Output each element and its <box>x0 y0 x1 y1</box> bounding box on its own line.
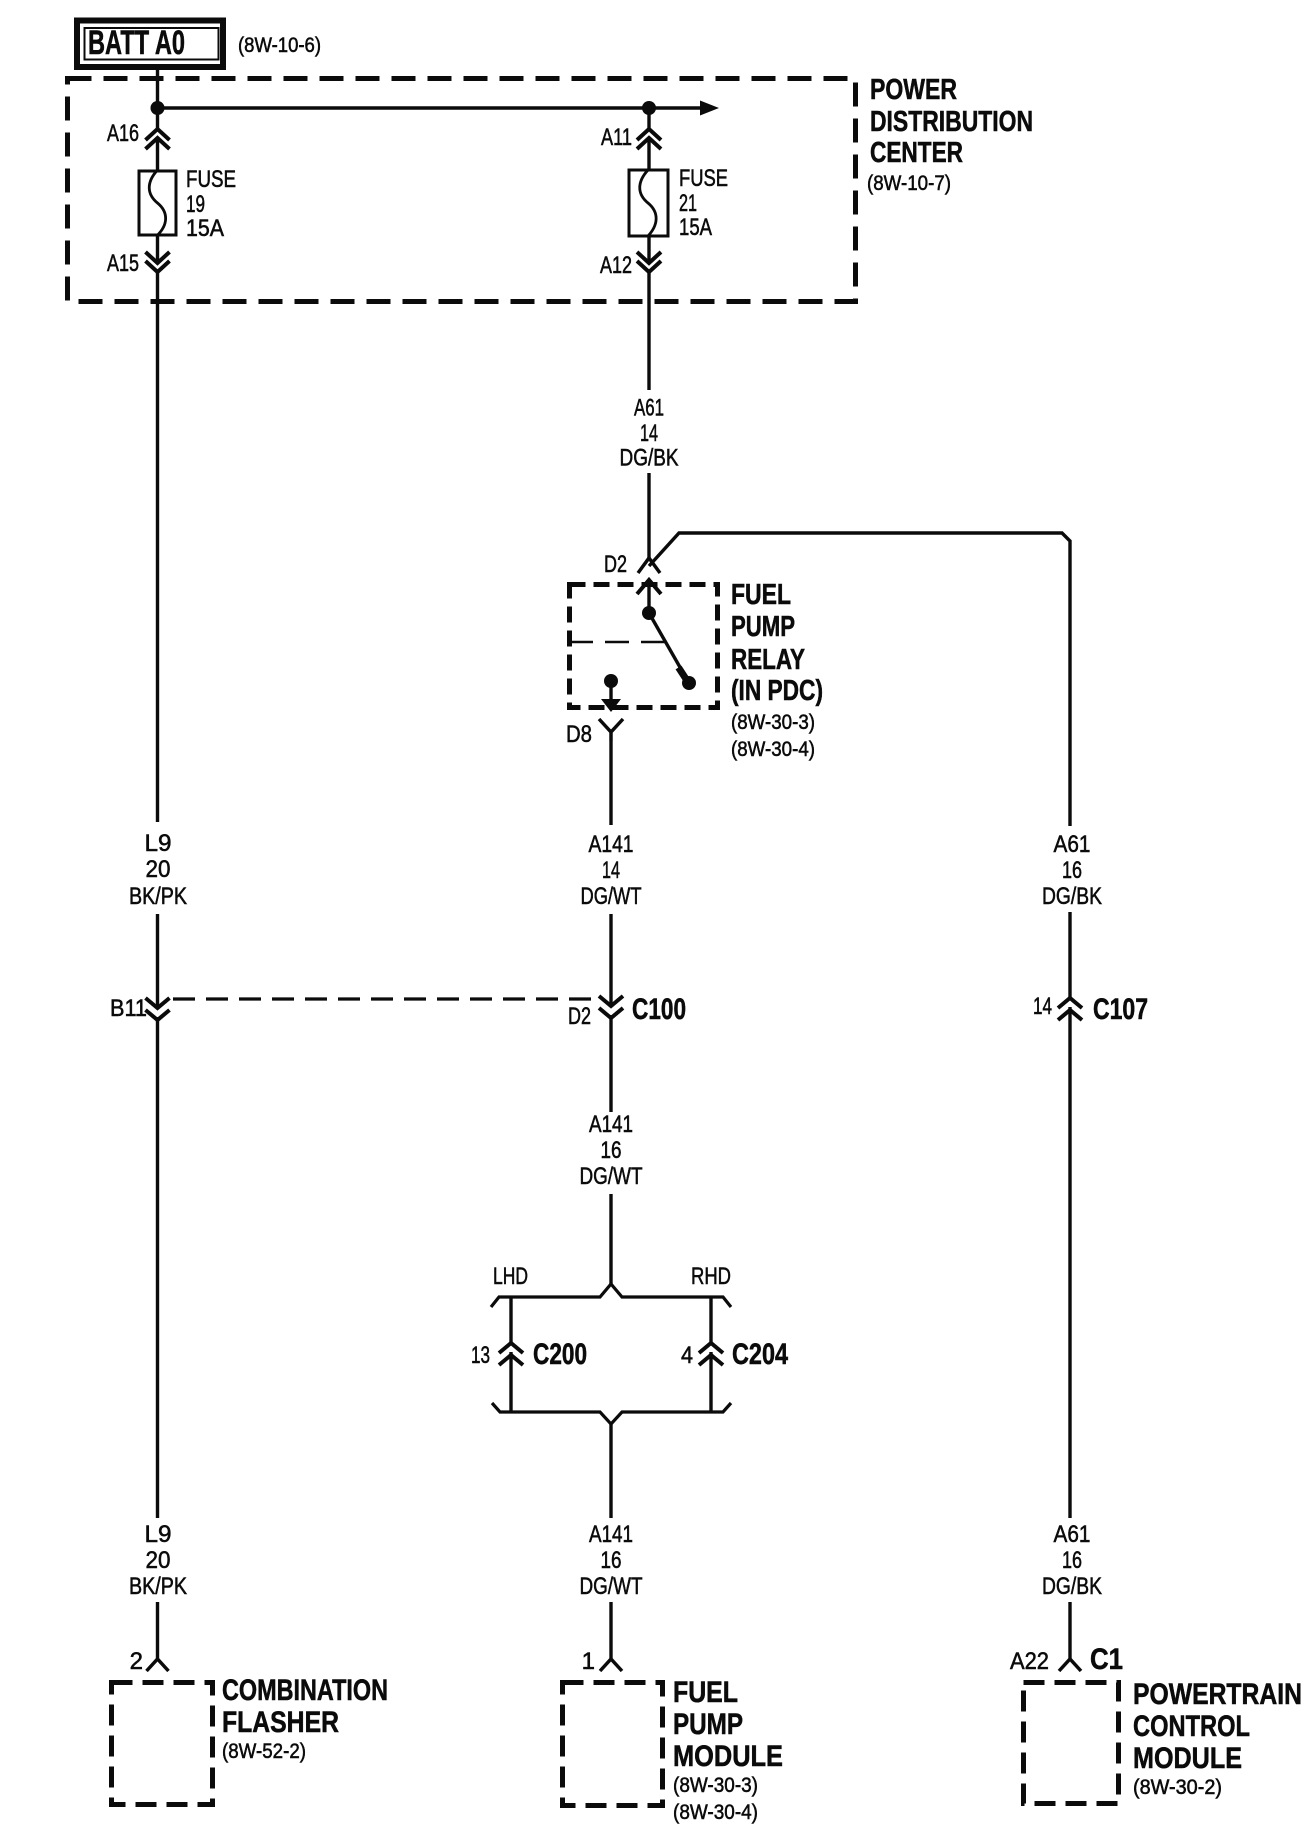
svg-text:(8W-10-6): (8W-10-6) <box>238 34 321 57</box>
svg-text:DG/BK: DG/BK <box>1042 883 1102 910</box>
svg-text:A61: A61 <box>1054 1521 1091 1548</box>
svg-text:20: 20 <box>146 1547 171 1574</box>
svg-text:COMBINATION: COMBINATION <box>222 1674 388 1707</box>
svg-text:C200: C200 <box>533 1338 587 1371</box>
svg-text:FUEL: FUEL <box>731 579 791 611</box>
svg-text:20: 20 <box>146 856 171 883</box>
svg-text:DG/WT: DG/WT <box>581 883 642 910</box>
svg-text:DG/BK: DG/BK <box>1042 1573 1102 1600</box>
svg-text:15A: 15A <box>186 215 224 242</box>
svg-text:D2: D2 <box>604 551 627 578</box>
svg-text:D2: D2 <box>568 1003 591 1030</box>
svg-text:BK/PK: BK/PK <box>129 1573 187 1600</box>
svg-text:PUMP: PUMP <box>731 611 795 643</box>
svg-text:CONTROL: CONTROL <box>1133 1710 1250 1743</box>
svg-text:A61: A61 <box>1054 831 1091 858</box>
svg-text:(8W-52-2): (8W-52-2) <box>222 1740 306 1763</box>
svg-text:15A: 15A <box>679 214 712 241</box>
svg-text:FUSE: FUSE <box>186 166 236 193</box>
svg-text:A141: A141 <box>589 1111 633 1138</box>
svg-text:FUEL: FUEL <box>673 1676 738 1709</box>
svg-text:DISTRIBUTION: DISTRIBUTION <box>870 106 1033 138</box>
svg-text:CENTER: CENTER <box>870 137 963 169</box>
svg-text:A61: A61 <box>634 395 664 422</box>
svg-text:L9: L9 <box>145 830 172 857</box>
svg-text:DG/BK: DG/BK <box>620 445 679 472</box>
svg-text:L9: L9 <box>145 1521 172 1548</box>
svg-text:14: 14 <box>1033 993 1052 1020</box>
svg-text:RELAY: RELAY <box>731 644 805 676</box>
svg-text:A15: A15 <box>107 250 139 277</box>
svg-text:16: 16 <box>1062 1547 1082 1574</box>
svg-text:A22: A22 <box>1010 1648 1049 1675</box>
svg-text:4: 4 <box>681 1342 693 1369</box>
svg-text:C107: C107 <box>1093 993 1148 1026</box>
svg-text:13: 13 <box>471 1342 490 1369</box>
svg-text:(8W-30-4): (8W-30-4) <box>731 738 815 761</box>
svg-text:C204: C204 <box>732 1338 788 1371</box>
svg-text:FUSE: FUSE <box>679 165 728 192</box>
svg-text:C1: C1 <box>1090 1643 1123 1676</box>
svg-text:RHD: RHD <box>691 1263 731 1290</box>
svg-text:16: 16 <box>601 1137 622 1164</box>
svg-text:B11: B11 <box>110 995 147 1022</box>
svg-text:A16: A16 <box>107 120 139 147</box>
svg-text:19: 19 <box>186 191 205 218</box>
svg-text:(8W-10-7): (8W-10-7) <box>867 172 951 195</box>
svg-text:14: 14 <box>602 857 620 884</box>
svg-text:LHD: LHD <box>493 1263 528 1290</box>
svg-text:PUMP: PUMP <box>673 1708 743 1741</box>
svg-text:C100: C100 <box>632 993 686 1026</box>
svg-text:A11: A11 <box>601 124 632 151</box>
svg-text:1: 1 <box>582 1648 595 1675</box>
svg-text:BK/PK: BK/PK <box>129 883 187 910</box>
svg-text:(8W-30-3): (8W-30-3) <box>731 711 815 734</box>
svg-text:FLASHER: FLASHER <box>222 1706 339 1739</box>
svg-text:POWERTRAIN: POWERTRAIN <box>1133 1678 1302 1711</box>
svg-text:(IN PDC): (IN PDC) <box>731 675 823 707</box>
svg-text:MODULE: MODULE <box>673 1740 783 1773</box>
svg-text:POWER: POWER <box>870 74 957 106</box>
svg-text:BATT A0: BATT A0 <box>88 24 185 62</box>
svg-text:21: 21 <box>679 190 697 217</box>
svg-text:A141: A141 <box>589 1521 633 1548</box>
svg-text:2: 2 <box>130 1648 143 1675</box>
svg-text:(8W-30-2): (8W-30-2) <box>1133 1776 1222 1799</box>
svg-text:(8W-30-4): (8W-30-4) <box>673 1801 758 1824</box>
svg-text:14: 14 <box>640 420 658 447</box>
svg-text:A141: A141 <box>589 831 634 858</box>
svg-text:A12: A12 <box>600 252 632 279</box>
svg-text:16: 16 <box>601 1547 622 1574</box>
svg-text:DG/WT: DG/WT <box>580 1163 643 1190</box>
svg-text:D8: D8 <box>566 721 592 748</box>
svg-text:16: 16 <box>1062 857 1082 884</box>
svg-text:MODULE: MODULE <box>1133 1742 1242 1775</box>
svg-text:DG/WT: DG/WT <box>580 1573 643 1600</box>
svg-text:(8W-30-3): (8W-30-3) <box>673 1774 758 1797</box>
